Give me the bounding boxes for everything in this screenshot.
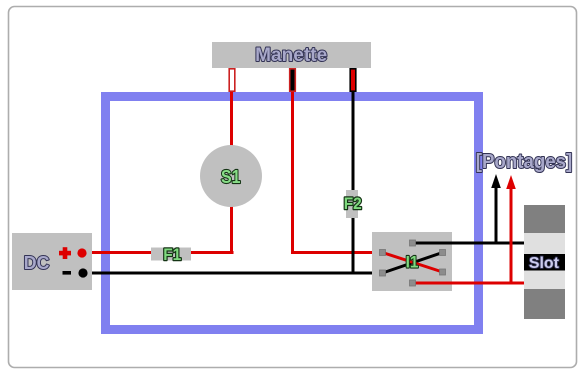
wire: black from Manette connector 3 down through F2 [352, 88, 355, 274]
lamp S1 body [200, 145, 262, 207]
wire: red from I1 bottom terminal to Slot [413, 282, 525, 285]
terminal pins of I1 [380, 240, 446, 286]
connector pin 2 (black/red) [290, 69, 296, 91]
svg-text:F2: F2 [344, 194, 362, 213]
wire: red from Manette connector 2 down and right to I1 [291, 88, 383, 253]
wire: red from Manette connector down to S1 and on to junction [230, 88, 233, 253]
terminal node - (black) [78, 268, 87, 277]
svg-text:Manette: Manette [255, 45, 327, 66]
minus symbol [63, 271, 72, 275]
slot track body [524, 205, 565, 319]
pontage arrow red [510, 187, 513, 283]
wire: black from I1 top terminal to Slot [413, 242, 525, 245]
svg-text:S1: S1 [221, 167, 241, 187]
svg-text:I1: I1 [406, 252, 419, 271]
connector pin 3 (red/black) [350, 69, 356, 91]
layout frame (purple border) [106, 97, 479, 330]
svg-text:[Pontages]: [Pontages] [476, 151, 573, 173]
plus symbol [59, 247, 71, 259]
slot rail top [524, 205, 565, 233]
power supply DC body [12, 233, 92, 290]
wire: red from DC+ terminal through F1 to S1 branch [82, 251, 234, 254]
fuse F2 [346, 190, 358, 218]
pontage arrow black [495, 186, 498, 243]
wire: red diagonal inside I1 [383, 253, 443, 273]
connector pin 1 (white/red) [229, 69, 235, 91]
svg-text:DC: DC [24, 253, 50, 273]
wire: black from DC- terminal to I1 [83, 272, 383, 275]
wire: black diagonal inside I1 [383, 253, 443, 274]
svg-text:Slot: Slot [529, 255, 560, 272]
terminal node + (red) [77, 248, 86, 257]
fuse F1 [151, 248, 191, 261]
svg-text:F1: F1 [163, 245, 181, 264]
slot rail bottom [524, 289, 565, 319]
slot name band [524, 254, 565, 271]
controller Manette body [212, 42, 371, 68]
relay I1 body [372, 232, 452, 291]
